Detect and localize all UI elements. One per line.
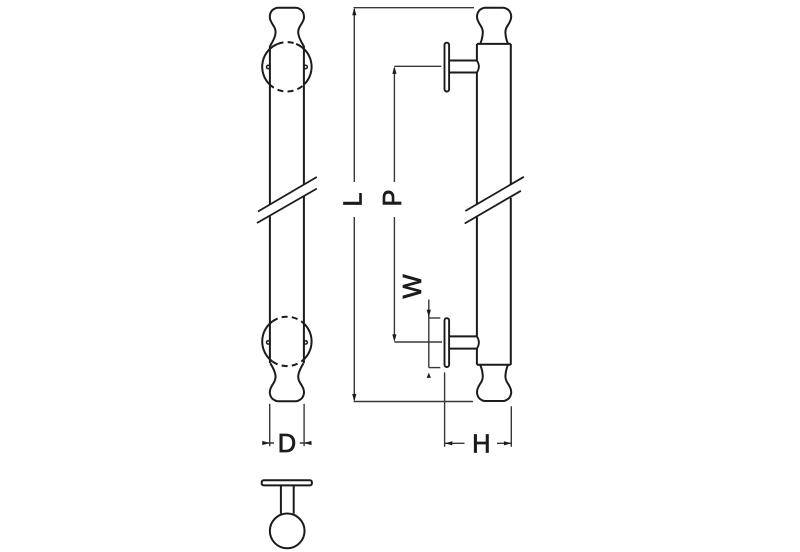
dimension L: top arrowhead <box>352 8 356 16</box>
front view: grip bar left edge <box>269 46 271 364</box>
dimension H: left arrowhead (pointing left) <box>445 441 452 445</box>
front view: bottom rose left screw hole <box>267 341 270 344</box>
front view: break symbol lower diagonal <box>257 189 317 223</box>
svg-text:L: L <box>339 192 367 206</box>
svg-text:W: W <box>399 274 427 298</box>
bottom view: flange plate <box>262 480 312 485</box>
dimension H: right extension line <box>510 406 512 447</box>
svg-text:D: D <box>278 430 296 458</box>
dimension H: left extension line <box>444 372 446 446</box>
dimension H: dimension line segments <box>445 442 511 444</box>
side view: top mounting flange <box>445 43 450 92</box>
front view: bottom rose solid arcs <box>262 321 311 361</box>
dimension L: top extension line <box>354 7 475 9</box>
bottom view: grip bar cross-section circle <box>270 514 305 549</box>
side view: bottom post fillet arc <box>477 336 479 348</box>
front view: top finial knob <box>270 8 304 46</box>
dimension W: vertical dimension line <box>428 300 430 368</box>
dimension P: vertical dimension line <box>393 68 395 339</box>
dimension L: bottom extension line <box>354 401 474 403</box>
side view: grip bar top end line <box>477 43 511 45</box>
front view: top rose left screw hole <box>267 65 270 68</box>
dimension W: bottom arrowhead (pointing up) <box>427 373 431 378</box>
side view: grip bar right edge <box>510 44 512 365</box>
dimension L: vertical dimension line <box>353 9 355 400</box>
side view: bottom mounting flange <box>445 318 450 367</box>
front view: bottom rose right screw hole <box>304 341 307 344</box>
front view: top rose right screw hole <box>304 65 307 68</box>
dimension W: bottom tick <box>429 367 441 369</box>
side view: top finial knob <box>477 8 511 44</box>
dimension D: left arrowhead (pointing right) <box>262 441 269 445</box>
side view: break symbol upper diagonal <box>465 177 524 211</box>
front view: top rose hidden dashed arcs <box>269 42 305 91</box>
dimension W: top arrowhead (pointing down) <box>427 310 431 317</box>
side view: grip bar bottom end line <box>477 364 511 366</box>
side view: bottom post stem <box>449 336 477 348</box>
dimension P: top extension line <box>394 65 441 67</box>
dimension P: top arrowhead <box>392 66 396 74</box>
front view: break symbol upper diagonal <box>258 177 317 212</box>
dimension P: bottom extension line <box>394 341 442 343</box>
dimension D: left extension line <box>269 404 271 446</box>
side view: break symbol lower diagonal <box>465 191 521 224</box>
svg-text:P: P <box>379 189 407 206</box>
dimension D: dimension line segments <box>262 442 311 444</box>
front view: grip bar right edge <box>303 46 305 364</box>
bottom view: post stem <box>281 485 294 513</box>
side view: grip bar left edge <box>476 44 478 365</box>
dimension D: right arrowhead (pointing left) <box>304 441 311 445</box>
dimension W: top tick <box>429 317 441 319</box>
front view: top rose solid arcs <box>262 44 311 84</box>
side view: top post stem <box>449 61 477 73</box>
dimension D: right extension line <box>303 404 305 446</box>
side view: bottom finial knob <box>477 365 511 401</box>
dimension P: bottom arrowhead <box>392 334 396 342</box>
side view: top post fillet arc <box>477 61 479 73</box>
front view: bottom rose hidden dashed arcs <box>272 317 301 366</box>
dimension H: right arrowhead (pointing right) <box>504 441 511 445</box>
svg-text:H: H <box>472 430 490 458</box>
dimension L: bottom arrowhead <box>352 394 356 402</box>
front view: bottom finial knob <box>270 363 304 401</box>
